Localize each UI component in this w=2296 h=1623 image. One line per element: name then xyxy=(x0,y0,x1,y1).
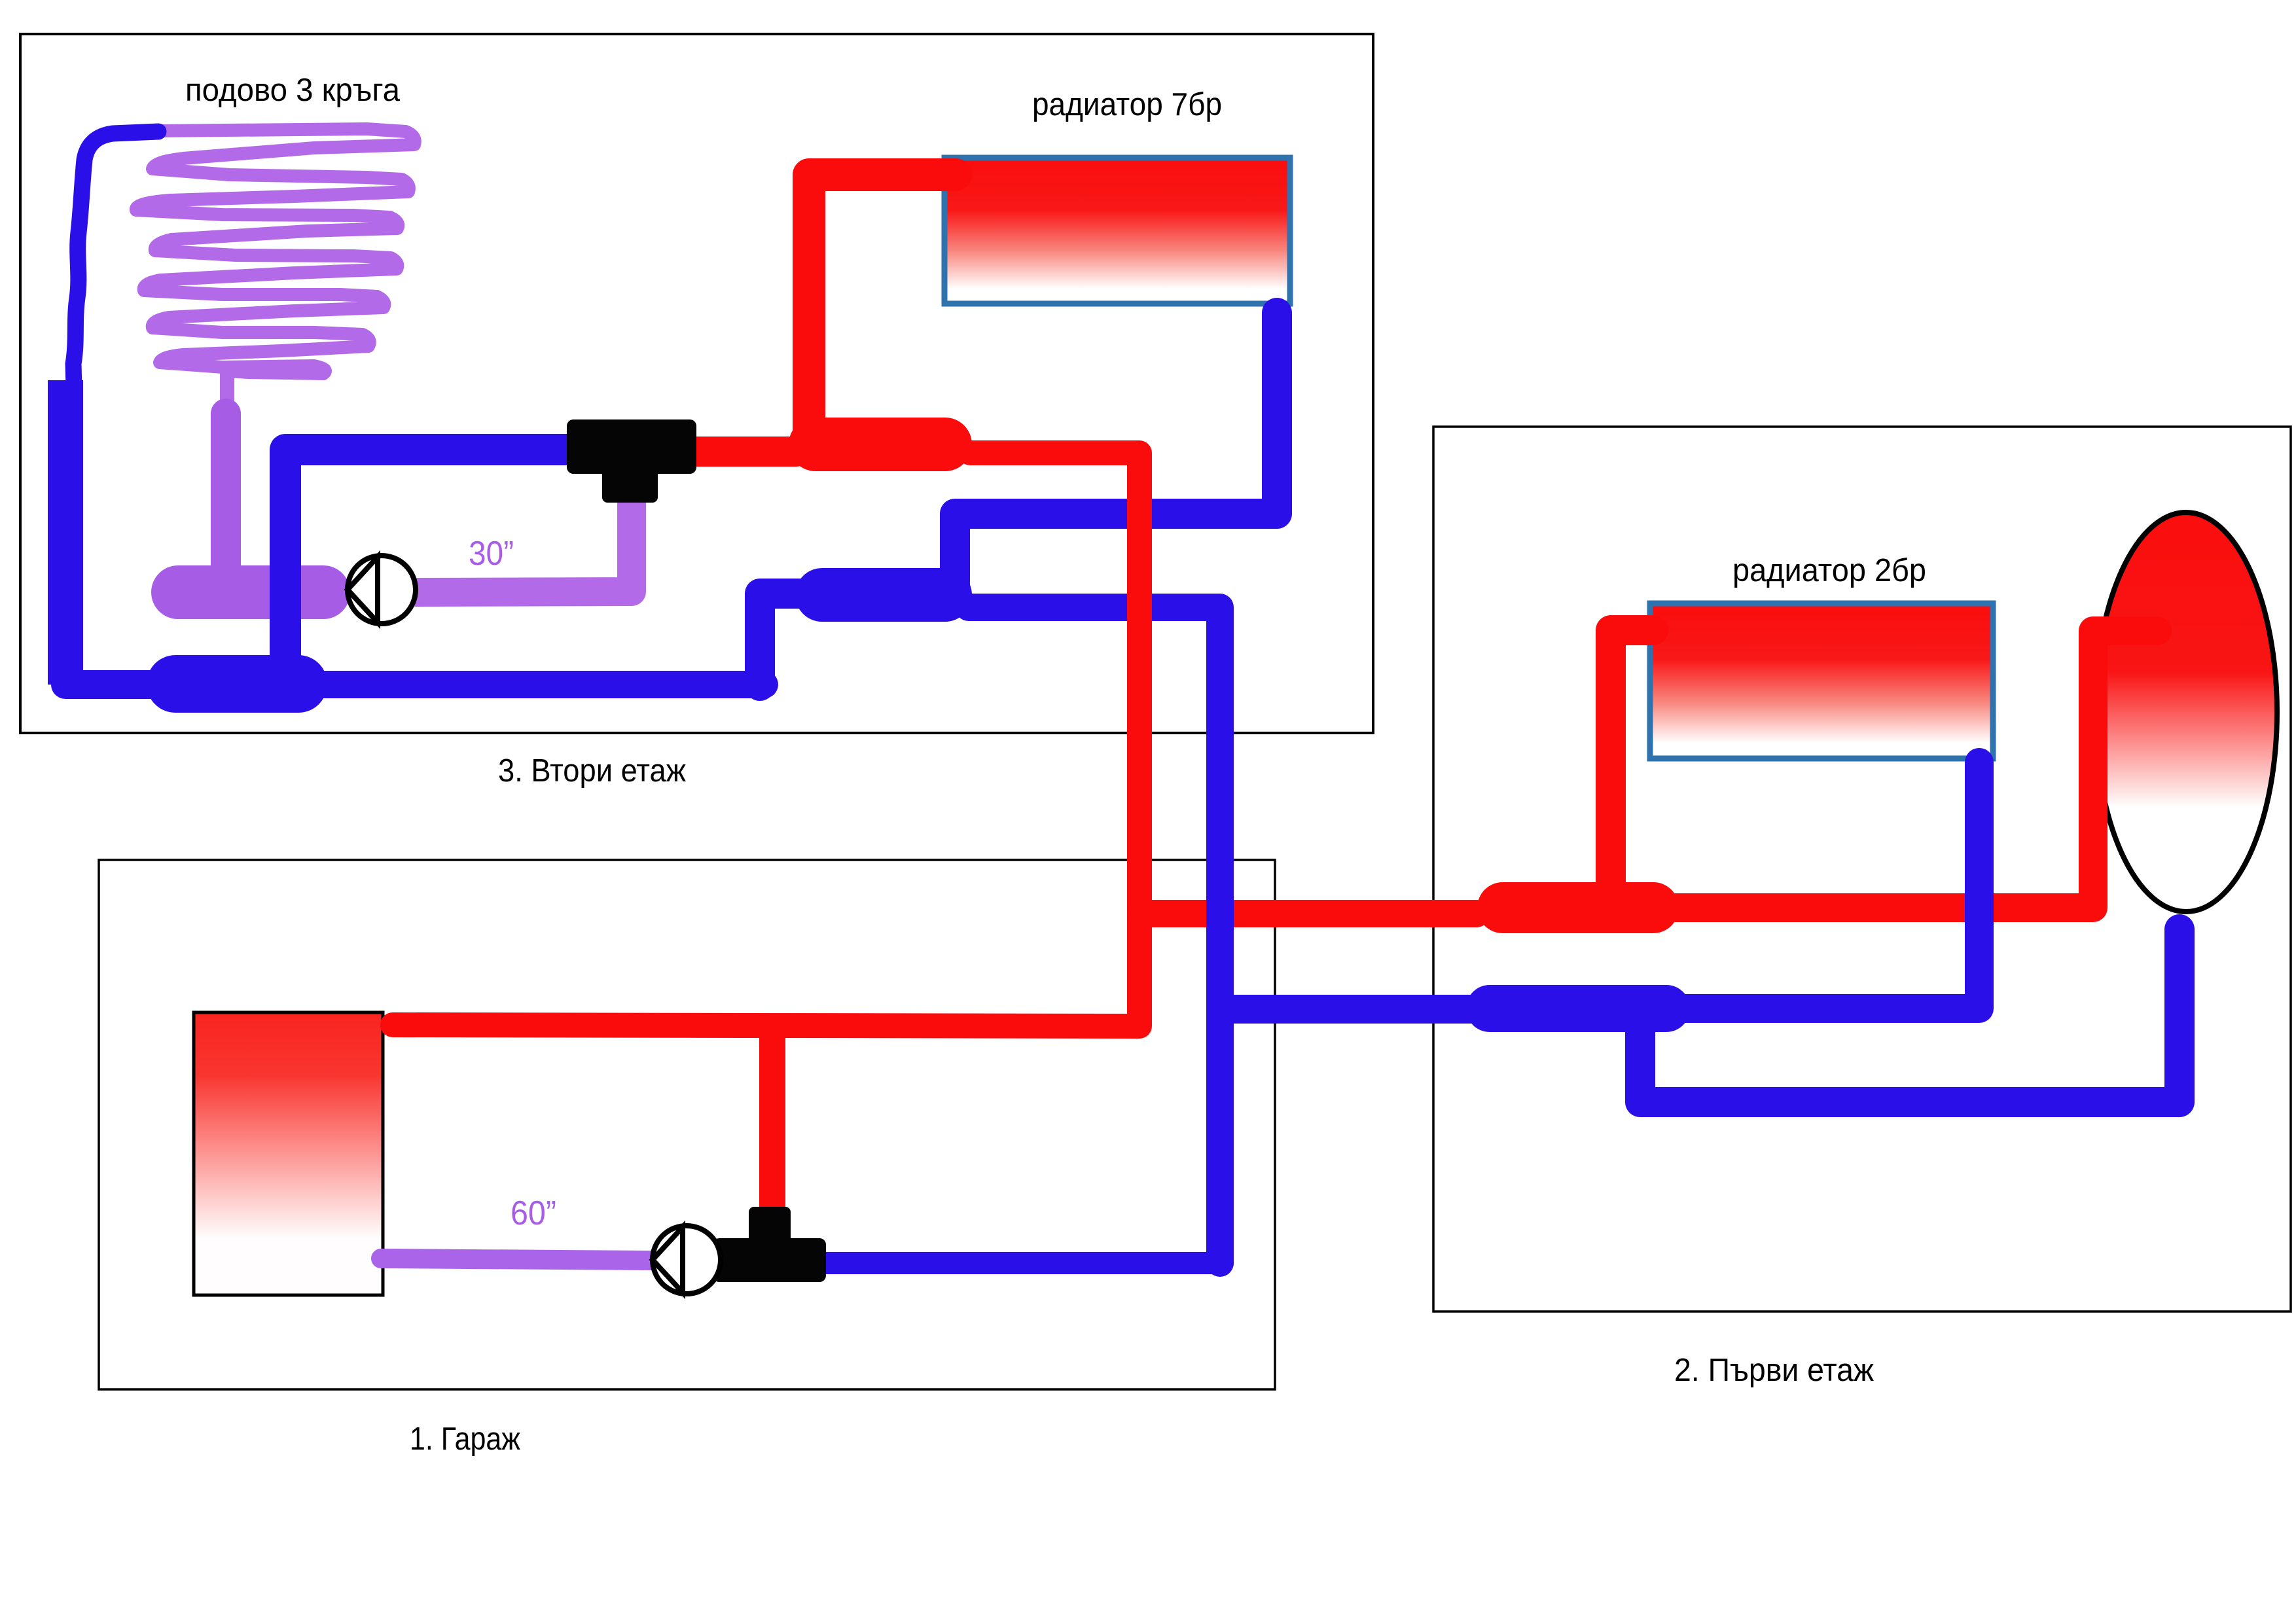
boiler tank ellipse xyxy=(2095,512,2277,912)
black tee second floor xyxy=(567,419,696,503)
blue riser overlay at crossing xyxy=(1206,880,1234,946)
coil stub to purple manifold xyxy=(220,370,234,401)
blue bottom return pipe xyxy=(298,671,764,698)
box 1 garage xyxy=(99,860,1275,1389)
blue thin wavy supply to coil xyxy=(73,132,158,387)
black tee garage xyxy=(713,1207,826,1282)
radiator 2br xyxy=(1650,603,1993,758)
blue radiator 7br return loop xyxy=(955,313,1277,599)
svg-text:30”: 30” xyxy=(469,535,514,573)
purple floor-heating coil xyxy=(136,129,415,374)
svg-text:подово 3 кръга: подово 3 кръга xyxy=(185,73,401,108)
purple wide vertical pipe xyxy=(211,414,241,569)
blue top loop pipe to tee xyxy=(285,450,568,658)
red main riser down to stove xyxy=(393,453,1139,1026)
red pipe tee to manifold xyxy=(695,437,796,467)
red garage branch drop xyxy=(759,1035,785,1212)
stove garage xyxy=(194,1012,383,1295)
svg-text:1. Гараж: 1. Гараж xyxy=(410,1421,520,1457)
red radiator 2br feed xyxy=(1611,630,1653,885)
red radiator 7br supply xyxy=(809,175,956,429)
pump second floor xyxy=(348,556,416,624)
blue bottom corner pipe xyxy=(65,670,151,699)
svg-text:радиатор 7бр: радиатор 7бр xyxy=(1032,87,1222,122)
svg-text:60”: 60” xyxy=(511,1194,556,1232)
purple pipe 60 stove to pump xyxy=(381,1258,651,1260)
box 3 second floor xyxy=(20,34,1373,733)
svg-text:3. Втори етаж: 3. Втори етаж xyxy=(498,753,686,789)
blue riser to fat bar xyxy=(760,594,818,686)
red branch to first floor xyxy=(1141,900,1477,927)
red manifold first floor xyxy=(1503,882,1653,933)
purple tee manifold bar xyxy=(178,565,323,619)
blue manifold first floor xyxy=(1490,985,1666,1032)
red manifold second floor xyxy=(816,418,945,471)
blue pipe radiator 2br return xyxy=(1676,762,1979,1008)
blue main return riser xyxy=(969,607,1220,1263)
blue garage return pipe xyxy=(826,1252,1223,1274)
svg-text:радиатор 2бр: радиатор 2бр xyxy=(1732,553,1926,588)
pump garage xyxy=(653,1226,721,1294)
red pipe to boiler xyxy=(1676,631,2157,908)
box 2 first floor xyxy=(1433,427,2291,1311)
purple pipe pump to tee riser 30 xyxy=(416,504,632,592)
svg-text:2. Първи етаж: 2. Първи етаж xyxy=(1674,1353,1874,1388)
blue pipe boiler return xyxy=(1640,929,2179,1102)
blue first floor branch xyxy=(1221,995,1473,1024)
radiator 7br xyxy=(944,158,1290,304)
blue bottom manifold xyxy=(175,655,298,713)
blue fat manifold bar xyxy=(822,568,945,622)
blue wide left return bar xyxy=(48,380,83,685)
